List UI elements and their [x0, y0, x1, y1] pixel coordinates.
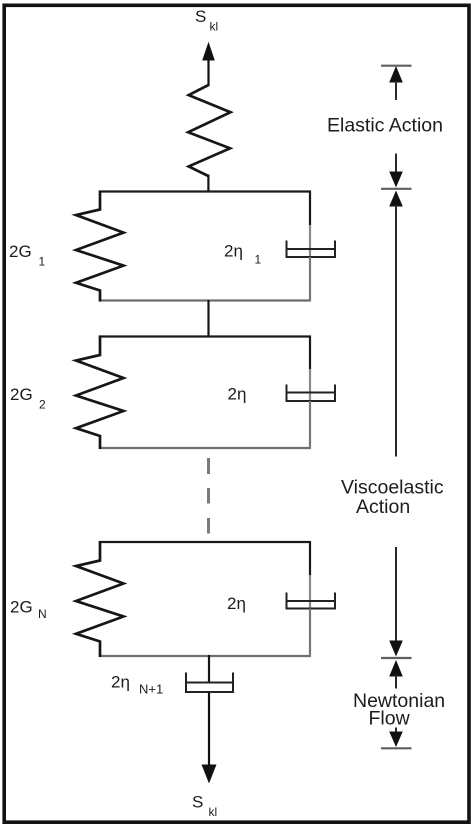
label 2eta box2: [228, 385, 247, 404]
tick newtonian top: [381, 657, 412, 659]
svg-text:2: 2: [39, 398, 46, 412]
svg-text:1: 1: [39, 255, 46, 269]
tick elastic top: [381, 65, 412, 67]
label Skl bottom: [192, 793, 217, 820]
svg-text:2G: 2G: [10, 385, 33, 404]
arrow Skl down: [202, 693, 217, 784]
arrow elastic down: [389, 154, 403, 188]
arrow Skl up: [202, 42, 215, 86]
svg-text:Action: Action: [356, 496, 410, 518]
box1 top wire: [99, 190, 311, 192]
wire node box1 to box2: [207, 300, 209, 337]
svg-text:2G: 2G: [10, 598, 33, 617]
dashpot 2etaN: [287, 593, 336, 610]
box1 bottom wire: [99, 299, 311, 301]
wire dashed continuation: [207, 458, 210, 534]
spring 2GN: [76, 541, 124, 657]
label 2eta box3: [227, 594, 246, 613]
svg-text:1: 1: [255, 253, 262, 267]
label Skl top: [195, 7, 218, 34]
dashpot 2etaN+1: [186, 673, 233, 693]
svg-text:kl: kl: [210, 20, 219, 34]
svg-text:S: S: [192, 793, 203, 812]
annotation Newtonian Flow: [353, 690, 445, 730]
wire box1 right edge lower: [309, 257, 311, 302]
annotation Viscoelastic Action: [341, 477, 444, 519]
arrow viscoelastic up: [389, 191, 403, 457]
wire spring G0 to box1: [207, 175, 209, 193]
tick newtonian bottom: [381, 747, 412, 749]
label 2G2: [10, 385, 46, 412]
wire box2 right edge lower: [309, 401, 311, 449]
arrow newtonian down: [389, 728, 403, 748]
wire box3 right rod through dashpot: [309, 575, 311, 609]
svg-text:2G: 2G: [9, 242, 32, 261]
svg-text:S: S: [195, 7, 206, 26]
svg-text:Flow: Flow: [369, 707, 411, 729]
arrow viscoelastic down: [389, 547, 403, 657]
spring 2G2: [76, 336, 124, 450]
wire box1 right edge upper: [309, 191, 311, 227]
wire box1 right rod through dashpot: [309, 225, 311, 257]
box2 top wire: [99, 335, 311, 337]
wire box2 right rod through dashpot: [309, 369, 311, 401]
tick elastic bottom: [381, 188, 412, 190]
box3 top wire: [99, 541, 311, 543]
box2 bottom wire: [99, 447, 311, 449]
annotation Elastic Action: [327, 115, 443, 137]
svg-text:N+1: N+1: [139, 682, 163, 697]
spring 2G1: [76, 191, 124, 302]
box3 bottom wire: [99, 655, 311, 657]
wire box2 right edge upper: [309, 336, 311, 371]
svg-text:2η: 2η: [228, 385, 247, 404]
dashpot 2eta2: [287, 385, 336, 402]
label 2G1: [9, 242, 46, 269]
arrow elastic up: [389, 66, 403, 100]
label 2etaN+1: [111, 673, 163, 697]
svg-text:kl: kl: [209, 805, 218, 819]
wire box3 to bottom dashpot: [208, 655, 210, 683]
dashpot 2eta1: [287, 241, 336, 258]
spring G0 elastic: [188, 85, 230, 192]
wire box3 right edge upper: [309, 541, 311, 576]
svg-text:2η: 2η: [224, 242, 243, 261]
label 2GN: [10, 598, 47, 622]
arrow newtonian up: [389, 660, 403, 689]
svg-text:N: N: [38, 607, 47, 621]
wire box3 right edge lower: [309, 609, 311, 658]
label 2eta1: [224, 242, 262, 267]
svg-text:2η: 2η: [227, 594, 246, 613]
svg-text:Elastic Action: Elastic Action: [327, 115, 443, 137]
svg-text:2η: 2η: [111, 673, 130, 692]
